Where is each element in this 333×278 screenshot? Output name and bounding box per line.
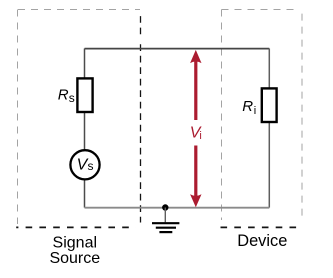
svg-text:s: s: [69, 91, 75, 105]
wire: left vertical middle (Rs to Vs): [84, 112, 86, 151]
dashed box: Signal Source (gray top edge): [18, 9, 140, 11]
svg-text:Device: Device: [237, 232, 287, 250]
node: junction dot on bottom wire: [162, 204, 168, 210]
wire: bottom horizontal: [85, 207, 270, 209]
svg-text:i: i: [199, 130, 201, 142]
dashed box: Device (black bottom edge): [221, 226, 299, 228]
ground symbol: [152, 208, 179, 233]
wire: top horizontal: [85, 48, 270, 50]
dashed box: Signal Source (gray left edge): [17, 10, 19, 225]
Vi measurement arrow (double headed, dark red): [190, 50, 201, 207]
resistor RS body: [77, 78, 92, 112]
dashed box: Signal Source (black bottom edge): [16, 226, 136, 228]
wire: left vertical lower (Vs to bottom wire): [84, 180, 86, 208]
wire: right vertical lower (Ri to bottom wire): [268, 122, 270, 208]
resistor Ri body: [262, 88, 277, 122]
dashed box: Device (gray right edge): [301, 14, 303, 218]
svg-text:Source: Source: [49, 250, 100, 267]
svg-text:i: i: [254, 105, 256, 117]
svg-text:R: R: [242, 98, 253, 115]
wire: left vertical upper (top wire to Rs): [84, 49, 86, 80]
svg-text:R: R: [58, 86, 69, 103]
dashed box: Device (gray top edge): [222, 9, 299, 11]
voltage source VS circle: [70, 150, 99, 179]
dashed box: Device (gray left edge): [221, 10, 223, 221]
dashed box: Signal Source (black right edge): [140, 16, 142, 39]
wire: right vertical upper (top wire to Ri): [268, 49, 270, 90]
svg-text:s: s: [88, 159, 94, 173]
